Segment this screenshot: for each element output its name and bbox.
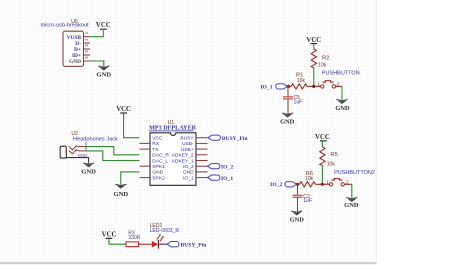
wire C5 to ground (287, 99, 289, 113)
wire U6 GND pin to ground (90, 61, 104, 67)
jack contact 2 (69, 150, 79, 154)
svg-text:330R: 330R (128, 235, 140, 241)
sheet bottom border (0, 262, 377, 264)
power flag VCC (PB2) (315, 134, 330, 141)
MP3 DFPLAYER name label (149, 126, 197, 132)
svg-text:R5: R5 (330, 152, 337, 158)
U6 pin 4 stub (84, 54, 91, 56)
svg-text:PUSHBUTTON: PUSHBUTTON (322, 71, 360, 77)
net flag BUSY_Pin (LED) (167, 242, 207, 249)
ground symbol (U1) (113, 184, 128, 198)
MP3 DFPLAYER U1 designator (168, 120, 175, 126)
svg-text:VCC: VCC (306, 37, 321, 44)
svg-text:4: 4 (84, 50, 89, 53)
pushbutton S2 label (334, 170, 375, 176)
capacitor C2 (293, 194, 313, 204)
svg-text:GND: GND (280, 119, 295, 126)
svg-text:DAC_L: DAC_L (152, 158, 168, 164)
svg-text:USB-: USB- (182, 141, 194, 147)
svg-text:ADKEY_2: ADKEY_2 (172, 153, 194, 159)
ground symbol (C5) (280, 113, 295, 126)
LED LED1 (152, 234, 164, 249)
jack pin stub 1 (79, 146, 86, 148)
LED1 designator (150, 223, 163, 229)
wire node C to C2 (297, 184, 299, 194)
svg-text:IO_1: IO_1 (183, 175, 194, 181)
pushbutton S1 label (322, 71, 360, 77)
svg-text:R2: R2 (322, 56, 329, 62)
wire R3 to LED (139, 243, 152, 245)
svg-text:10k: 10k (297, 78, 306, 84)
node C junction (IO_2 / C2) (296, 183, 299, 186)
wire R5 to node (321, 165, 323, 184)
svg-text:IO_1: IO_1 (221, 176, 233, 182)
svg-text:GND: GND (81, 168, 96, 175)
ground symbol (U6) (96, 66, 111, 78)
svg-text:VCC: VCC (102, 232, 117, 239)
ground symbol (PB2) (344, 198, 359, 210)
U6 pin numbers 1-5 (84, 31, 89, 59)
pushbutton S2 (324, 179, 352, 186)
svg-text:VCC: VCC (152, 136, 163, 142)
U1 right pin names (172, 136, 195, 182)
wire U1 GND pin to ground (121, 172, 140, 185)
net flag IO_1 (PB1) (260, 84, 287, 91)
op-amp U1 body (150, 133, 196, 186)
resistor R2 (311, 49, 329, 69)
node B junction (R1/R2/switch) (312, 85, 315, 88)
jack pin label 0 (tip) (85, 141, 88, 146)
svg-text:SPK2: SPK2 (152, 175, 165, 181)
sheet right border (376, 0, 377, 263)
svg-text:2: 2 (84, 38, 89, 41)
U6 pin 5 stub (84, 60, 91, 62)
svg-text:micro-usb-breakout: micro-usb-breakout (41, 22, 90, 28)
svg-text:TX: TX (152, 147, 159, 153)
ground symbol (PB1) (335, 100, 350, 112)
wire jack ring to U1 DAC_L (86, 151, 140, 161)
node A junction (IO_1 / C5) (287, 85, 290, 88)
net flag IO_2 (U1) (208, 164, 234, 171)
svg-text:VUSB: VUSB (67, 35, 82, 41)
jack sleeve to ground wire (66, 158, 88, 164)
micro-usb-breakout name label (41, 22, 90, 28)
svg-text:10k: 10k (327, 161, 336, 167)
svg-text:PUSHBUTTON2: PUSHBUTTON2 (334, 170, 375, 176)
resistor R1 (288, 72, 313, 89)
micro-usb-breakout U6 body (63, 31, 84, 66)
U6 pin 2 stub (84, 42, 91, 44)
headphone jack name label (73, 136, 118, 142)
svg-text:BUSY_Pin: BUSY_Pin (181, 243, 208, 249)
svg-text:1: 1 (84, 31, 89, 34)
svg-text:3: 3 (84, 44, 89, 47)
power flag VCC (U6) (96, 22, 111, 29)
resistor R3 (126, 231, 141, 247)
micro-usb-breakout U6 designator (71, 19, 78, 25)
svg-text:GND: GND (113, 191, 128, 198)
jack pin label GND (78, 153, 88, 158)
power flag VCC (PB1) (306, 37, 321, 44)
ground symbol (jack) (81, 163, 96, 175)
jack pin label 0 (ring) (85, 146, 88, 151)
svg-text:1: 1 (326, 180, 329, 186)
svg-text:ADKEY_1: ADKEY_1 (172, 158, 194, 164)
svg-text:1: 1 (317, 82, 320, 88)
net flag IO_2 (PB2) (270, 182, 296, 188)
pushbutton S1 (315, 81, 342, 88)
power flag VCC (LED) (102, 232, 117, 239)
svg-text:GND: GND (183, 170, 194, 176)
svg-text:10k: 10k (318, 63, 327, 69)
wire VCC to R2 (313, 44, 315, 49)
wire node A to C5 (287, 86, 289, 96)
svg-text:GND: GND (290, 217, 305, 224)
svg-text:DAC_R: DAC_R (152, 153, 169, 159)
U1 left pin stubs RX TX SPK1 SPK2 (140, 143, 151, 177)
svg-text:GND: GND (69, 59, 81, 65)
wire R2 to node (313, 68, 315, 86)
U1 right pin stubs (196, 138, 208, 178)
svg-text:IO_2: IO_2 (270, 182, 282, 188)
svg-text:VCC: VCC (315, 134, 330, 141)
wire jack tip to U1 DAC_R (86, 147, 140, 155)
resistor R5 (320, 147, 338, 168)
svg-text:IO_1: IO_1 (260, 84, 272, 90)
wire VUSB to VCC (90, 30, 103, 37)
wire VCC to U1 VCC pin (124, 114, 140, 138)
svg-text:VCC: VCC (116, 106, 131, 113)
svg-text:GND: GND (335, 105, 350, 112)
wire LED to flag (158, 243, 167, 245)
svg-text:VCC: VCC (96, 22, 111, 29)
jack contact 1 (69, 146, 79, 150)
U1 left pin names (152, 136, 169, 182)
svg-text:IO_2: IO_2 (183, 164, 194, 170)
LED1 name label (150, 228, 180, 234)
svg-text:BUSY_Pin: BUSY_Pin (222, 136, 249, 142)
resistor R6 (298, 171, 323, 187)
capacitor C5 (283, 95, 302, 105)
power flag VCC (U1) (116, 106, 131, 113)
svg-text:10k: 10k (305, 176, 314, 182)
svg-text:SPK1: SPK1 (152, 164, 165, 170)
wire VCC to R5 (321, 141, 323, 147)
svg-text:1uF: 1uF (294, 100, 303, 106)
svg-text:BUSY: BUSY (180, 136, 194, 142)
headphone jack plug body (60, 146, 66, 158)
svg-text:IO_2: IO_2 (221, 165, 233, 171)
svg-text:GND: GND (96, 71, 111, 78)
wire switch to ground (PB1) (341, 86, 343, 100)
sheet grid area (0, 0, 376, 264)
U6 pin 1 stub (84, 36, 91, 38)
net flag IO_1 (U1) (208, 175, 234, 182)
svg-text:RX: RX (152, 141, 160, 147)
net flag BUSY_Pin (U1) (208, 135, 248, 142)
node D junction (R6/R5/switch) (321, 183, 324, 186)
svg-text:USB+: USB+ (181, 147, 194, 153)
headphone jack U2 designator (71, 131, 78, 137)
svg-text:Headphones Jack: Headphones Jack (73, 136, 118, 142)
jack pin stub 2 (79, 150, 86, 152)
svg-text:5: 5 (84, 56, 89, 59)
svg-text:GND: GND (152, 170, 163, 176)
wire switch to ground (PB2) (351, 184, 353, 198)
ground symbol (C2) (290, 211, 305, 224)
svg-text:GND: GND (344, 202, 359, 209)
svg-text:LED-0603_R: LED-0603_R (150, 228, 180, 234)
wire VCC to R3 (109, 239, 126, 244)
wire C2 to ground (297, 198, 299, 212)
svg-text:1uF: 1uF (303, 198, 312, 204)
U6 pin 3 stub (84, 48, 91, 50)
